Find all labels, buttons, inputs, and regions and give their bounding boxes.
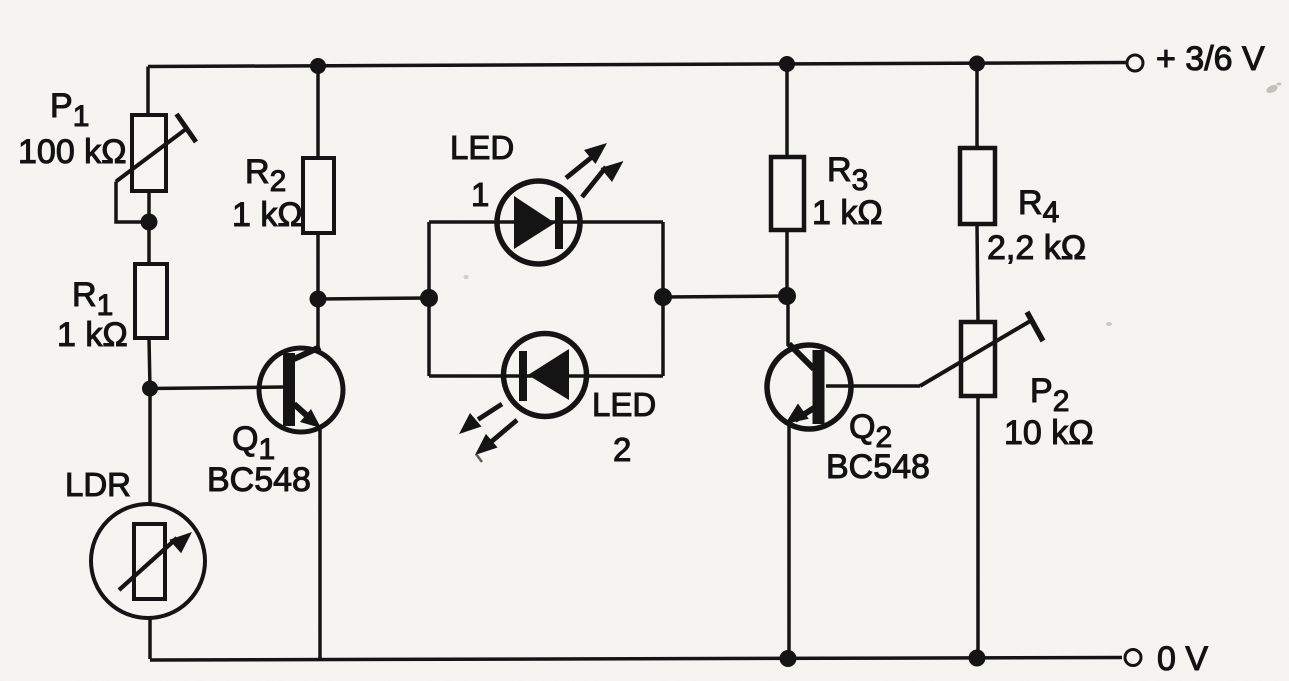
svg-text:2,2 kΩ: 2,2 kΩ xyxy=(987,229,1086,267)
svg-text:2: 2 xyxy=(613,431,631,468)
resistor R2 xyxy=(303,158,334,233)
transistor Q2 xyxy=(767,344,851,429)
node: 0V rail / P2 xyxy=(969,650,986,667)
node: mid bus / R3 xyxy=(778,287,796,305)
node: P1 wiper junction xyxy=(141,214,158,231)
wire: Q2 base lead xyxy=(826,384,920,388)
LED D2 xyxy=(459,334,587,456)
wire: left branch top (rail to P1) xyxy=(146,67,150,117)
svg-text:LDR: LDR xyxy=(65,466,131,503)
svg-text:LED: LED xyxy=(450,129,514,166)
svg-text:1: 1 xyxy=(471,176,489,213)
wire: base node to LDR top xyxy=(148,389,152,504)
wire: Q1 base lead xyxy=(150,387,283,389)
paper speck mid left xyxy=(464,275,469,279)
node: Q1 base node xyxy=(142,381,158,397)
wire: mid bus right segment xyxy=(663,296,787,297)
svg-text:100 kΩ: 100 kΩ xyxy=(18,133,127,171)
wire: P2 bottom to 0V rail xyxy=(976,396,980,658)
wire: 0V bottom rail xyxy=(150,658,1122,661)
svg-text:BC548: BC548 xyxy=(826,448,930,486)
svg-text:BC548: BC548 xyxy=(207,461,311,499)
wire: mid bus left segment xyxy=(318,298,429,299)
node: LED bridge left xyxy=(420,289,438,307)
wire: P1 bottom to R1 top xyxy=(147,189,151,264)
paper speck near P2 xyxy=(1106,322,1112,326)
resistor R3 xyxy=(771,157,804,230)
LDR xyxy=(91,504,205,618)
wire: R1 bottom to base node xyxy=(149,338,150,389)
svg-text:1 kΩ: 1 kΩ xyxy=(232,196,303,234)
wire: collector node to Q2 xyxy=(786,296,790,346)
wire: Q1 emitter down to 0V rail xyxy=(318,426,322,660)
wire: R3 top (rail to R3) xyxy=(785,64,789,157)
wire: R4 bottom to P2 top xyxy=(977,224,978,322)
svg-text:10 kΩ: 10 kΩ xyxy=(1004,414,1094,452)
paper speck top right xyxy=(1265,83,1281,95)
LED D1 xyxy=(497,143,624,264)
wire: Q2 emitter down to 0V rail xyxy=(787,426,791,658)
wire: LED bridge right vertical xyxy=(661,222,665,376)
node: LED bridge right xyxy=(654,288,672,306)
svg-text:+ 3/6 V: + 3/6 V xyxy=(1156,40,1265,78)
node: mid bus / R2 xyxy=(310,291,327,308)
svg-text:1 kΩ: 1 kΩ xyxy=(812,194,883,232)
node: 0V rail / Q2 emitter xyxy=(780,650,797,667)
node: top rail / R4 xyxy=(969,56,985,72)
wire: LED bridge left vertical xyxy=(427,222,431,376)
node: top rail / R2 xyxy=(310,58,326,74)
wire: mid node to Q1 collector entry xyxy=(316,299,320,348)
wire: LED bridge bottom (through LED2) xyxy=(429,374,663,378)
svg-text:LED: LED xyxy=(592,386,656,423)
wire: R4 top (rail to R4) xyxy=(975,64,979,149)
wire: R3 bottom to collector node xyxy=(785,230,789,296)
resistor R4 xyxy=(960,148,995,224)
node: top rail / R3 xyxy=(779,56,795,72)
wire: R2 bottom to mid node xyxy=(316,233,320,299)
wire: +V top rail xyxy=(148,63,1126,67)
terminal: + 3/6 V xyxy=(1127,40,1265,78)
terminal: 0 V xyxy=(1125,640,1208,678)
wire: LED bridge top (through LED1) xyxy=(429,220,663,224)
potentiometer P1 xyxy=(116,114,196,222)
ink flick under LED2 arrow xyxy=(476,454,482,462)
wire: LDR bottom to 0V rail xyxy=(148,619,152,659)
svg-text:0 V: 0 V xyxy=(1157,640,1208,678)
svg-text:1 kΩ: 1 kΩ xyxy=(57,316,128,354)
wire: R2 top (rail to R2) xyxy=(316,66,320,158)
resistor R1 xyxy=(135,264,167,338)
potentiometer P2 xyxy=(920,312,1043,396)
transistor Q1 xyxy=(259,347,343,432)
